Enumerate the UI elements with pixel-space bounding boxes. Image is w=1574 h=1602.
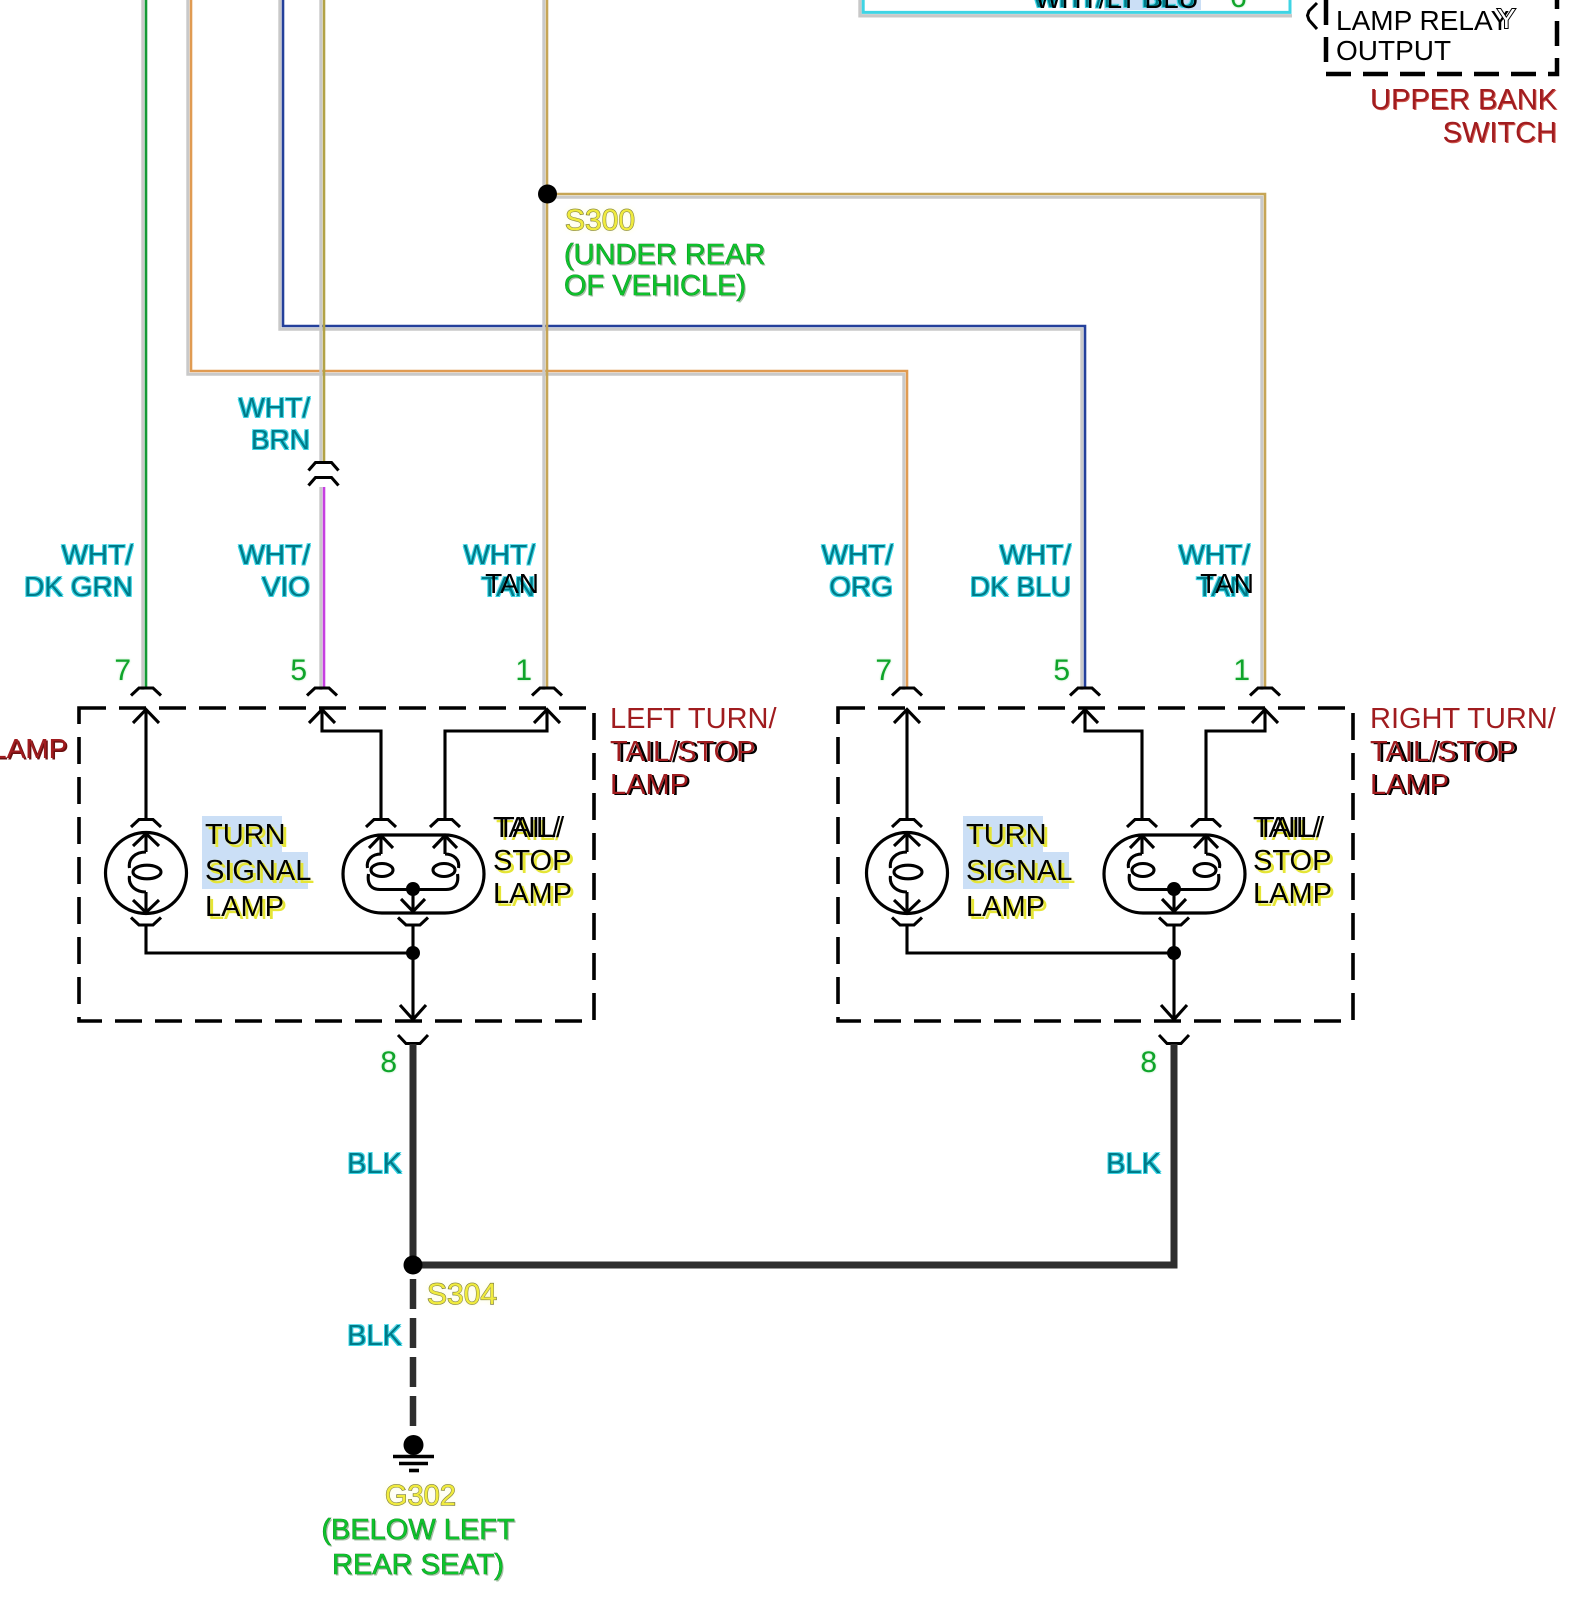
pin 7 right connector hat xyxy=(892,688,922,696)
turn signal lamp left circle xyxy=(106,833,187,914)
splice S304 junction dot xyxy=(404,1256,423,1275)
break symbol lower arc xyxy=(309,478,339,486)
right tail lamp terminal hat A xyxy=(1127,820,1157,828)
right pin 5 wire arrow into box xyxy=(1072,710,1142,819)
wire WHT/ORG shadow xyxy=(188,0,904,690)
BLK dashed wire to ground xyxy=(410,1279,417,1432)
wire WHT/TAN (left pin 1) xyxy=(546,0,549,687)
pin 5 right connector hat xyxy=(1070,688,1100,696)
tail/stop lamp left internals xyxy=(367,836,458,912)
left turn signal lamp label highlight xyxy=(202,816,282,852)
left tail lamp terminal hat B xyxy=(430,820,460,828)
node WHT/LT BLU label (cut at top) xyxy=(1104,0,1201,10)
node WHT/BRN label xyxy=(110,392,310,456)
right pin 8 connector cup xyxy=(1159,1035,1189,1044)
splice S304 label xyxy=(427,1280,497,1310)
right turn signal lamp terminal hat xyxy=(892,820,922,828)
left pin 1 wire arrow into box xyxy=(445,710,560,819)
pin 1 right connector hat xyxy=(1250,688,1280,696)
node WHT/DK BLU label xyxy=(871,539,1071,603)
break symbol upper arc xyxy=(309,463,339,471)
node WHT/VIO label xyxy=(110,539,310,603)
pin 7 left label xyxy=(0,656,131,686)
wire from left turn lamp to junction xyxy=(146,926,413,953)
off-page bracket xyxy=(1308,3,1318,29)
left tail/stop lamp label xyxy=(493,812,572,911)
right box junction dot xyxy=(1167,946,1181,960)
tail/stop lamp left body xyxy=(343,835,484,913)
right turn signal lamp label highlight xyxy=(963,816,1043,852)
left turn signal lamp label xyxy=(205,817,311,925)
cyan highlight box shadow (top) xyxy=(860,0,1292,16)
wire WHT/VIO (left pin 5) xyxy=(323,487,326,687)
wire WHT/BRN (to break) xyxy=(323,0,326,462)
lamp relay output label xyxy=(1336,6,1509,65)
splice S300 junction dot xyxy=(538,185,557,204)
left cut-off LAMP label xyxy=(0,735,67,763)
cyan highlight box (top WHT/LT BLU) xyxy=(863,0,1290,12)
pin 8 right label xyxy=(957,1048,1157,1078)
right tail/stop lamp label xyxy=(1253,812,1332,911)
lamp relay output dashed box xyxy=(1326,0,1557,74)
ground G302 label xyxy=(385,1482,456,1511)
right pin 1 wire arrow into box xyxy=(1206,710,1278,819)
wire WHT/DK GRN shadow xyxy=(141,0,144,690)
turn signal lamp left bottom cup xyxy=(131,918,161,926)
left tail lamp terminal hat A xyxy=(366,820,396,828)
node S300 location label xyxy=(564,240,765,302)
right turn/tail/stop lamp title xyxy=(1370,703,1556,802)
left pin 5 wire arrow into box xyxy=(309,710,381,819)
node WHT/ORG label xyxy=(693,539,893,603)
pin 5 left connector hat xyxy=(307,688,337,696)
left pin 8 connector cup xyxy=(398,1035,428,1044)
left box junction dot xyxy=(406,946,420,960)
node BLK bottom label xyxy=(202,1322,402,1351)
left turn/tail/stop lamp title xyxy=(610,703,777,802)
right turn signal lamp internals xyxy=(890,834,922,913)
wire WHT/ORG (right pin 7) xyxy=(191,0,907,687)
wire WHT/TAN branch shadow xyxy=(547,197,1262,690)
tail/stop lamp right bottom cup xyxy=(1159,918,1189,926)
ground G302 symbol xyxy=(393,1435,434,1471)
tail/stop lamp left junction dot xyxy=(406,882,420,896)
left lamp dashed box xyxy=(79,708,594,1021)
right pin 7 wire arrow into box xyxy=(894,710,920,819)
node WHT/TAN left label xyxy=(335,539,535,603)
tail/stop lamp right body xyxy=(1104,835,1245,913)
wire WHT/VIO shadow xyxy=(319,487,322,690)
pin 1 left connector hat xyxy=(532,688,562,696)
right turn signal lamp label xyxy=(966,817,1072,925)
right turn signal lamp circle xyxy=(867,833,948,914)
wire WHT/TAN shadow xyxy=(542,0,545,690)
wire tail lamp right to pin 8 xyxy=(1172,926,1175,1019)
tail/stop lamp right junction dot xyxy=(1167,882,1181,896)
right tail lamp terminal hat B xyxy=(1191,820,1221,828)
turn signal lamp left internals xyxy=(129,834,161,913)
right pin 8 exit arrow xyxy=(1161,1005,1187,1020)
pin 6 label xyxy=(1230,0,1247,13)
splice S300 label xyxy=(565,206,635,236)
wire tail lamp left to pin 8 xyxy=(411,926,414,1019)
pin 1 right label xyxy=(1050,656,1250,686)
node WHT/TAN right label xyxy=(1050,539,1250,603)
wire WHT/DK BLU shadow xyxy=(280,0,1082,690)
pin 5 left label xyxy=(107,656,307,686)
node BLK right label xyxy=(961,1150,1161,1179)
ground G302 location label xyxy=(238,1513,598,1583)
pin 8 left label xyxy=(197,1048,397,1078)
wire WHT/BRN shadow xyxy=(319,0,322,464)
pin 5 right label xyxy=(870,656,1070,686)
left pin 8 exit arrow xyxy=(400,1005,426,1020)
left turn signal lamp terminal hat xyxy=(131,820,161,828)
pin 7 left connector hat xyxy=(131,688,161,696)
BLK wire left pin 8 down xyxy=(410,1044,417,1265)
upper bank switch label xyxy=(1307,84,1557,150)
right turn signal lamp bottom cup xyxy=(892,918,922,926)
wire WHT/DK BLU (right pin 5) xyxy=(283,0,1085,687)
wire from right turn lamp to junction xyxy=(907,926,1174,953)
node BLK left label xyxy=(202,1150,402,1179)
tail/stop lamp left bottom cup xyxy=(398,918,428,926)
pin 1 left label xyxy=(332,656,532,686)
pin 7 right label xyxy=(692,656,892,686)
BLK wire right pin 8 down and across xyxy=(413,1044,1174,1265)
tail/stop lamp right internals xyxy=(1128,836,1219,912)
wire WHT/TAN branch to right pin 1 xyxy=(547,194,1265,687)
left pin 7 wire arrow into box xyxy=(133,710,159,819)
node WHT/DK GRN label xyxy=(0,539,133,603)
right lamp dashed box xyxy=(838,708,1353,1021)
wire WHT/DK GRN (left pin 7) xyxy=(145,0,148,687)
